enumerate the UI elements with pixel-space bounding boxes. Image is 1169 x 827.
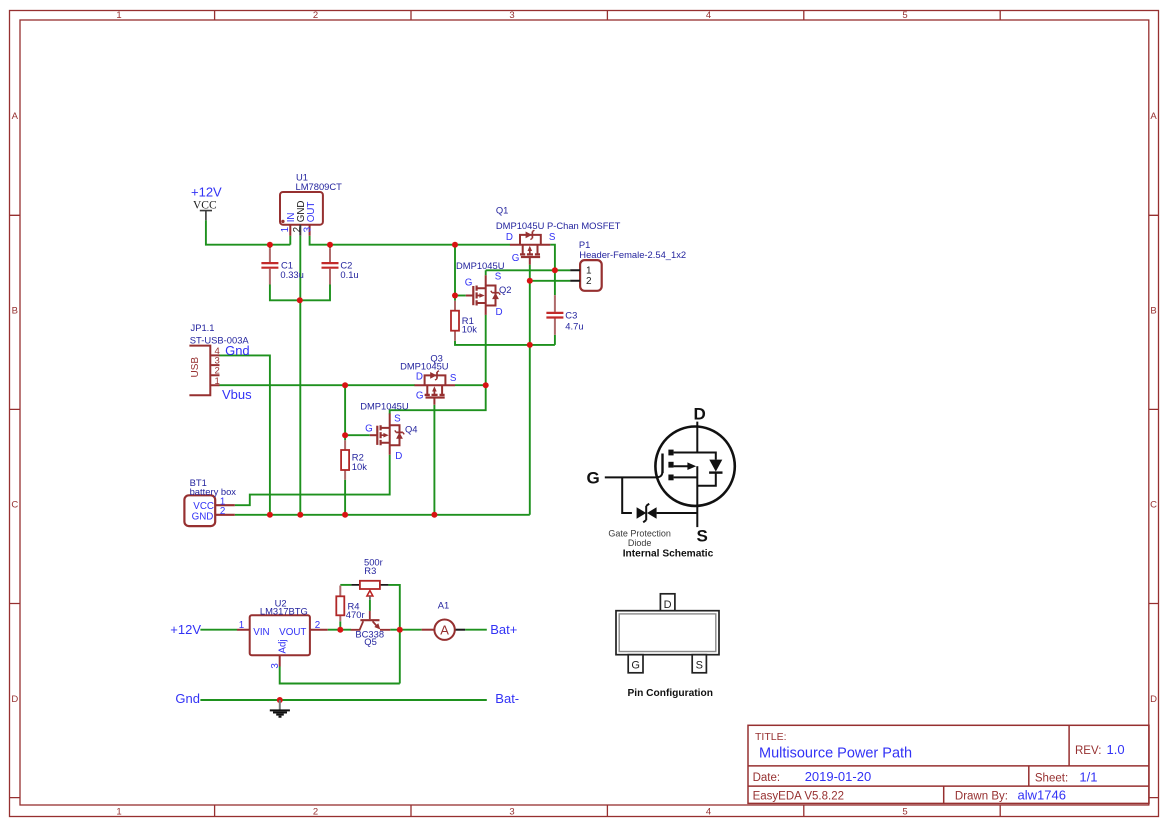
node Q4 gate / R2: [342, 432, 348, 438]
svg-text:3: 3: [509, 10, 514, 21]
wire R3 right to Adj vertical: [388, 585, 399, 684]
internal schematic body diode triangle: [709, 460, 722, 472]
wire VCC to +12V rail: [206, 220, 290, 245]
wire R1 bottom to rail2: [455, 341, 555, 345]
node VOUT / R4: [337, 627, 343, 633]
svg-text:4: 4: [706, 807, 711, 818]
pin configuration drawing: [616, 594, 719, 699]
internal schematic gate line: [605, 471, 663, 477]
svg-text:A1: A1: [438, 599, 449, 610]
node Q1 source / C3: [552, 267, 558, 273]
wire Q4 drain to BT1 pin1 jog: [235, 455, 390, 506]
wire C2 top: [329, 245, 331, 249]
title block outline: [748, 725, 1149, 803]
node Vbus / R2: [342, 382, 348, 388]
wire Q2 gate: [455, 295, 466, 297]
node bottom rail / Q3 gate: [431, 512, 437, 518]
svg-text:EasyEDA V5.8.22: EasyEDA V5.8.22: [753, 791, 844, 803]
wire Gnd rail to Bat-: [200, 699, 486, 701]
svg-text:Internal Schematic: Internal Schematic: [623, 548, 714, 559]
internal schematic body diode: [697, 472, 716, 485]
svg-text:D: D: [416, 372, 423, 383]
wire Q2 drain node down to Q4 source: [390, 385, 486, 414]
wire Q5 emitter to node E: [390, 629, 400, 631]
resistor R4: [339, 586, 341, 622]
internal schematic protection diode right: [647, 507, 657, 519]
ground symbol: [270, 700, 290, 717]
svg-text:G: G: [587, 469, 600, 488]
wire U1 GND pin down to bottom rail: [299, 236, 301, 515]
node Q3 source / Q2 drain: [483, 382, 489, 388]
svg-text:1: 1: [116, 807, 121, 818]
svg-text:B: B: [1150, 305, 1156, 316]
internal schematic gate branch: [622, 477, 697, 513]
svg-text:Gnd: Gnd: [175, 691, 200, 706]
wire P1 pin2 to Q1 gate node: [530, 280, 570, 282]
svg-text:A: A: [12, 111, 19, 122]
JUNCTIONS: [267, 242, 558, 703]
svg-text:1: 1: [280, 227, 291, 232]
svg-text:JP1.1: JP1.1: [191, 322, 215, 333]
svg-text:Q4: Q4: [405, 424, 418, 435]
wire Q3 gate down to bottom rail: [433, 405, 435, 515]
svg-text:+12V: +12V: [191, 184, 222, 199]
U1 pin1 dot: [281, 220, 284, 223]
node bottom rail / R2: [342, 512, 348, 518]
svg-text:+12V: +12V: [170, 622, 201, 637]
node rail2 / gate line: [527, 342, 533, 348]
internal schematic substrate arrow: [687, 462, 696, 470]
svg-text:3: 3: [270, 663, 281, 669]
svg-text:3: 3: [302, 226, 313, 232]
node C2/+12V rail: [327, 242, 333, 248]
internal schematic protection diode left: [637, 507, 647, 519]
wire Vbus from USB pin1 to Q3 drain: [220, 384, 416, 386]
capacitor C1: [269, 248, 271, 284]
svg-text:Multisource Power Path: Multisource Power Path: [759, 746, 912, 762]
wire A1 to Bat+: [465, 629, 487, 631]
transistor Q5: [351, 611, 391, 630]
pin config D tab: [660, 594, 675, 611]
svg-text:1: 1: [586, 266, 592, 277]
svg-text:DMP1045U P-Chan MOSFET: DMP1045U P-Chan MOSFET: [496, 220, 621, 231]
ammeter A1: [422, 629, 435, 631]
internal schematic channel squares: [668, 450, 673, 456]
potentiometer R3: [351, 584, 388, 586]
svg-text:0.33u: 0.33u: [280, 269, 303, 280]
svg-text:Header-Female-2.54_1x2: Header-Female-2.54_1x2: [579, 249, 686, 260]
wire bottom rail BT1 GND: [235, 514, 530, 516]
svg-text:Vbus: Vbus: [222, 387, 252, 402]
internal schematic circle: [655, 427, 734, 506]
wire Vbus node down to R2 top: [344, 385, 346, 440]
svg-text:2019-01-20: 2019-01-20: [805, 769, 872, 784]
svg-text:battery box: battery box: [190, 486, 237, 497]
svg-text:1.0: 1.0: [1107, 742, 1125, 757]
svg-text:A: A: [440, 622, 449, 637]
svg-text:Q2: Q2: [499, 284, 512, 295]
svg-text:D: D: [664, 599, 672, 611]
svg-text:Sheet:: Sheet:: [1035, 773, 1068, 785]
internal schematic source line: [696, 466, 698, 527]
svg-text:alw1746: alw1746: [1018, 788, 1066, 803]
svg-text:DMP1045U: DMP1045U: [360, 401, 409, 412]
svg-text:Gate Protection: Gate Protection: [608, 529, 671, 539]
P1 pin stubs: [570, 270, 580, 281]
svg-text:S: S: [394, 414, 401, 425]
svg-text:TITLE:: TITLE:: [755, 731, 787, 743]
svg-text:1: 1: [116, 10, 121, 21]
internal schematic gate bar: [661, 454, 663, 474]
node C1/+12V rail: [267, 242, 273, 248]
svg-text:VIN: VIN: [253, 627, 269, 638]
svg-text:3: 3: [509, 807, 514, 818]
R3 wiper: [367, 591, 373, 597]
svg-text:10k: 10k: [462, 323, 477, 334]
svg-text:Bat+: Bat+: [490, 622, 517, 637]
svg-text:2: 2: [586, 276, 592, 287]
header P1: [580, 260, 602, 291]
svg-text:4.7u: 4.7u: [565, 320, 583, 331]
svg-text:R3: R3: [364, 565, 376, 576]
wire Q2 drain down to Q3 source wire: [485, 315, 487, 385]
regulator U2: [237, 615, 328, 666]
svg-text:S: S: [495, 271, 502, 282]
svg-text:2: 2: [313, 807, 318, 818]
svg-text:Q5: Q5: [364, 636, 377, 647]
wire C1 bottom to GND junction: [270, 285, 300, 301]
svg-text:OUT: OUT: [306, 202, 317, 223]
svg-text:USB: USB: [190, 357, 201, 378]
wire node E to A1: [400, 629, 422, 631]
svg-text:G: G: [365, 423, 373, 434]
node bottom rail / USB gnd: [267, 512, 273, 518]
node C1C2 gnd: [297, 297, 303, 303]
pin config S tab: [692, 655, 706, 673]
U1 pin2 stub: [299, 225, 301, 236]
svg-text:A: A: [1150, 111, 1157, 122]
WIRES: [200, 220, 570, 700]
transistor Q2: [466, 275, 500, 315]
svg-text:D: D: [11, 694, 18, 705]
svg-text:D: D: [506, 232, 513, 243]
svg-text:D: D: [1150, 694, 1157, 705]
wire U2 Adj to vertical: [280, 667, 400, 684]
resistor R2: [344, 440, 346, 479]
internal schematic drawing: [605, 422, 735, 527]
pin config G tab: [628, 655, 643, 673]
svg-text:LM317BTG: LM317BTG: [260, 605, 308, 616]
svg-text:1: 1: [215, 376, 220, 387]
svg-text:GND: GND: [192, 511, 214, 522]
svg-text:B: B: [12, 305, 18, 316]
wire C3 bottom to rail2: [554, 335, 556, 345]
wire Q1 gate down through rails to bottom rail corner: [529, 265, 531, 515]
regulator U1: [280, 192, 323, 236]
wire C2 bottom to GND junction: [300, 285, 330, 301]
svg-text:DMP1045U: DMP1045U: [456, 260, 505, 271]
title block DrawnBy divider: [943, 786, 945, 803]
transistor Q3: [415, 371, 456, 405]
svg-text:VCC: VCC: [193, 501, 214, 512]
battery BT1: [184, 495, 234, 526]
svg-text:REV:: REV:: [1075, 745, 1101, 757]
node bottom rail / U1 gnd: [297, 512, 303, 518]
svg-text:0.1u: 0.1u: [340, 269, 358, 280]
svg-text:LM7809CT: LM7809CT: [296, 181, 343, 192]
svg-text:C: C: [11, 500, 18, 511]
svg-text:2: 2: [315, 620, 320, 631]
svg-text:S: S: [696, 659, 703, 671]
wire R3 left to R4 top: [340, 584, 351, 586]
node Q5 emitter / R3-Adj: [397, 627, 403, 633]
svg-text:4: 4: [706, 10, 711, 21]
svg-text:G: G: [512, 253, 520, 264]
svg-text:Gnd: Gnd: [225, 343, 250, 358]
transistor Q4: [370, 414, 404, 455]
svg-text:1/1: 1/1: [1079, 770, 1097, 785]
internal schematic drain line: [697, 422, 716, 460]
wire Q3 source to Q2 drain node: [455, 384, 486, 386]
svg-text:S: S: [450, 373, 457, 384]
wire +12V rail drop to R1 top: [454, 245, 456, 301]
svg-text:5: 5: [902, 10, 907, 21]
title block REV divider: [1068, 725, 1070, 766]
node R1/+12V rail: [452, 242, 458, 248]
title block Sheet divider: [1028, 766, 1030, 786]
capacitor C2: [329, 248, 331, 284]
resistor R1: [454, 301, 456, 341]
internal schematic zener bar: [643, 504, 649, 523]
svg-text:S: S: [697, 527, 708, 546]
transistor Q1: [510, 230, 550, 264]
svg-text:S: S: [549, 232, 556, 243]
wire USB Gnd from pin4 down to bottom rail: [220, 355, 270, 514]
wire C1 top: [269, 245, 271, 249]
wire R2 bottom to bottom rail: [344, 480, 346, 515]
svg-text:DMP1045U: DMP1045U: [400, 361, 449, 372]
wire R3 wiper to Q5 base: [369, 600, 371, 611]
power symbol VCC: [200, 211, 212, 221]
svg-text:D: D: [395, 451, 402, 462]
wire node S1 to C3 top: [554, 270, 556, 295]
wire Q4 gate: [345, 434, 370, 436]
svg-text:Drawn By:: Drawn By:: [955, 791, 1008, 803]
svg-text:Date:: Date:: [753, 772, 781, 784]
wire R4 bottom to node: [339, 621, 341, 629]
svg-text:2: 2: [313, 10, 318, 21]
internal schematic channel contacts: [674, 453, 698, 478]
svg-text:Adj: Adj: [277, 639, 288, 653]
wire U2 +12V to pin1: [200, 629, 237, 631]
svg-text:G: G: [416, 391, 424, 402]
wire Q2 source drop: [485, 270, 487, 275]
svg-text:VOUT: VOUT: [279, 627, 306, 638]
svg-text:C: C: [1150, 500, 1157, 511]
wire U2 VOUT to R4 node: [328, 629, 341, 631]
node Q1 gate / P1 pin2: [527, 278, 533, 284]
wire +12V rail from U1 OUT to Q1 drain: [310, 236, 510, 245]
wire U1 pin1 stub join: [289, 236, 291, 245]
svg-text:1: 1: [239, 620, 244, 631]
wire Q2 source to P1 pin1: [486, 269, 571, 271]
capacitor C3: [554, 295, 556, 335]
DRAWINGS: [587, 405, 735, 700]
svg-text:D: D: [694, 405, 706, 424]
TITLE BLOCK: [748, 725, 1149, 803]
svg-text:Bat-: Bat-: [495, 691, 519, 706]
svg-text:5: 5: [902, 807, 907, 818]
svg-text:C3: C3: [565, 309, 577, 320]
wire R4 node to Q5 collector: [340, 629, 351, 631]
wire Q1 source to node S1: [550, 245, 555, 271]
title block row line 1: [748, 765, 1149, 767]
svg-text:Diode: Diode: [628, 538, 652, 548]
svg-text:VCC: VCC: [193, 200, 217, 212]
svg-text:G: G: [631, 659, 640, 671]
svg-text:G: G: [465, 277, 473, 288]
svg-text:10k: 10k: [352, 461, 367, 472]
svg-text:Pin Configuration: Pin Configuration: [627, 688, 712, 699]
title block row line 2: [748, 785, 1149, 787]
svg-text:470r: 470r: [346, 609, 365, 620]
node Gnd rail / ground: [277, 697, 283, 703]
pin config body: [616, 611, 719, 655]
svg-text:2: 2: [220, 506, 225, 517]
svg-text:D: D: [496, 307, 503, 318]
connector JP1.1 USB: [189, 346, 219, 396]
svg-text:Q1: Q1: [496, 204, 509, 215]
node Q2 gate / R1: [452, 293, 458, 299]
